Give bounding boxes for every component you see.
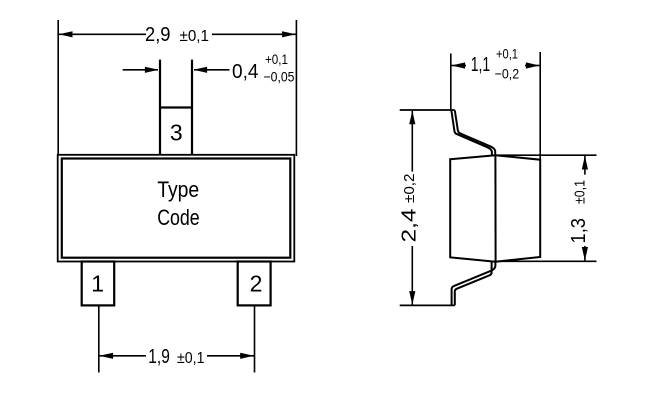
extension line right of 1,1 [539,52,541,160]
svg-text:±0,1: ±0,1 [177,350,205,367]
dimension line 2,4 upper segment with up arrow [411,110,413,172]
svg-text:1: 1 [91,270,104,296]
extension line top of 1,3 [495,154,596,156]
extension line right of 2,9 [295,20,297,156]
body outer rectangle [58,155,295,262]
dimension line 2,4 lower segment with down arrow [411,246,413,305]
svg-text:2,9: 2,9 [145,24,171,46]
svg-text:±0,1: ±0,1 [180,28,210,45]
arrow right 2,9 [282,31,296,37]
lead 1/2 (bottom) inner surface [455,261,492,305]
svg-text:−0,05: −0,05 [264,69,295,85]
svg-text:1,1: 1,1 [471,54,491,76]
extension line left of 1,1 [450,54,452,111]
svg-text:2: 2 [250,270,263,296]
seam / parting line [494,155,496,262]
lead 1/2 (bottom) outer surface [452,262,496,306]
svg-text:−0,2: −0,2 [495,66,520,82]
svg-text:±0,1: ±0,1 [572,180,589,204]
svg-text:1,3: 1,3 [568,218,590,244]
svg-text:Type: Type [157,177,199,202]
svg-text:Code: Code [157,205,200,230]
dimension line 1,1 with arrows [451,65,466,67]
extension line left of 2,9 [57,20,59,156]
dimension 0,4 leader left [123,69,158,71]
dimension line 1,3 upper segment with up arrow [584,155,586,175]
centerline pin 1 [98,305,100,372]
svg-text:±0,2: ±0,2 [401,174,418,204]
lead 3 (top) inner surface [455,110,495,155]
svg-text:1,9: 1,9 [148,346,170,368]
dimension line 2,9 [58,33,146,35]
svg-text:2,4: 2,4 [399,209,421,243]
svg-text:+0,1: +0,1 [265,51,288,67]
dimension line 1,3 lower segment with down arrow [584,246,586,261]
extension line bottom of 1,3 [496,260,597,262]
pin 1 outline [82,262,115,306]
dimension line 1,9 [99,355,146,357]
svg-text:0,4: 0,4 [232,61,259,83]
pin 3 top face [159,106,193,108]
dimension 0,4 leader right [194,69,230,71]
centerline pin 2 [254,305,256,372]
pin 2 outline [238,262,271,306]
lead 3 (top) outer surface [451,111,492,155]
svg-text:3: 3 [170,119,183,145]
body hexagon side view [450,155,540,262]
body inner rectangle [62,159,290,258]
svg-text:+0,1: +0,1 [496,46,518,62]
extension line bottom of 2,4 / lead bottom surface [400,304,455,306]
arrow left 2,9 [59,31,73,37]
pin 3 outline / extension lines [159,60,161,155]
extension line top of 2,4 / lead 3 top surface [400,109,455,111]
